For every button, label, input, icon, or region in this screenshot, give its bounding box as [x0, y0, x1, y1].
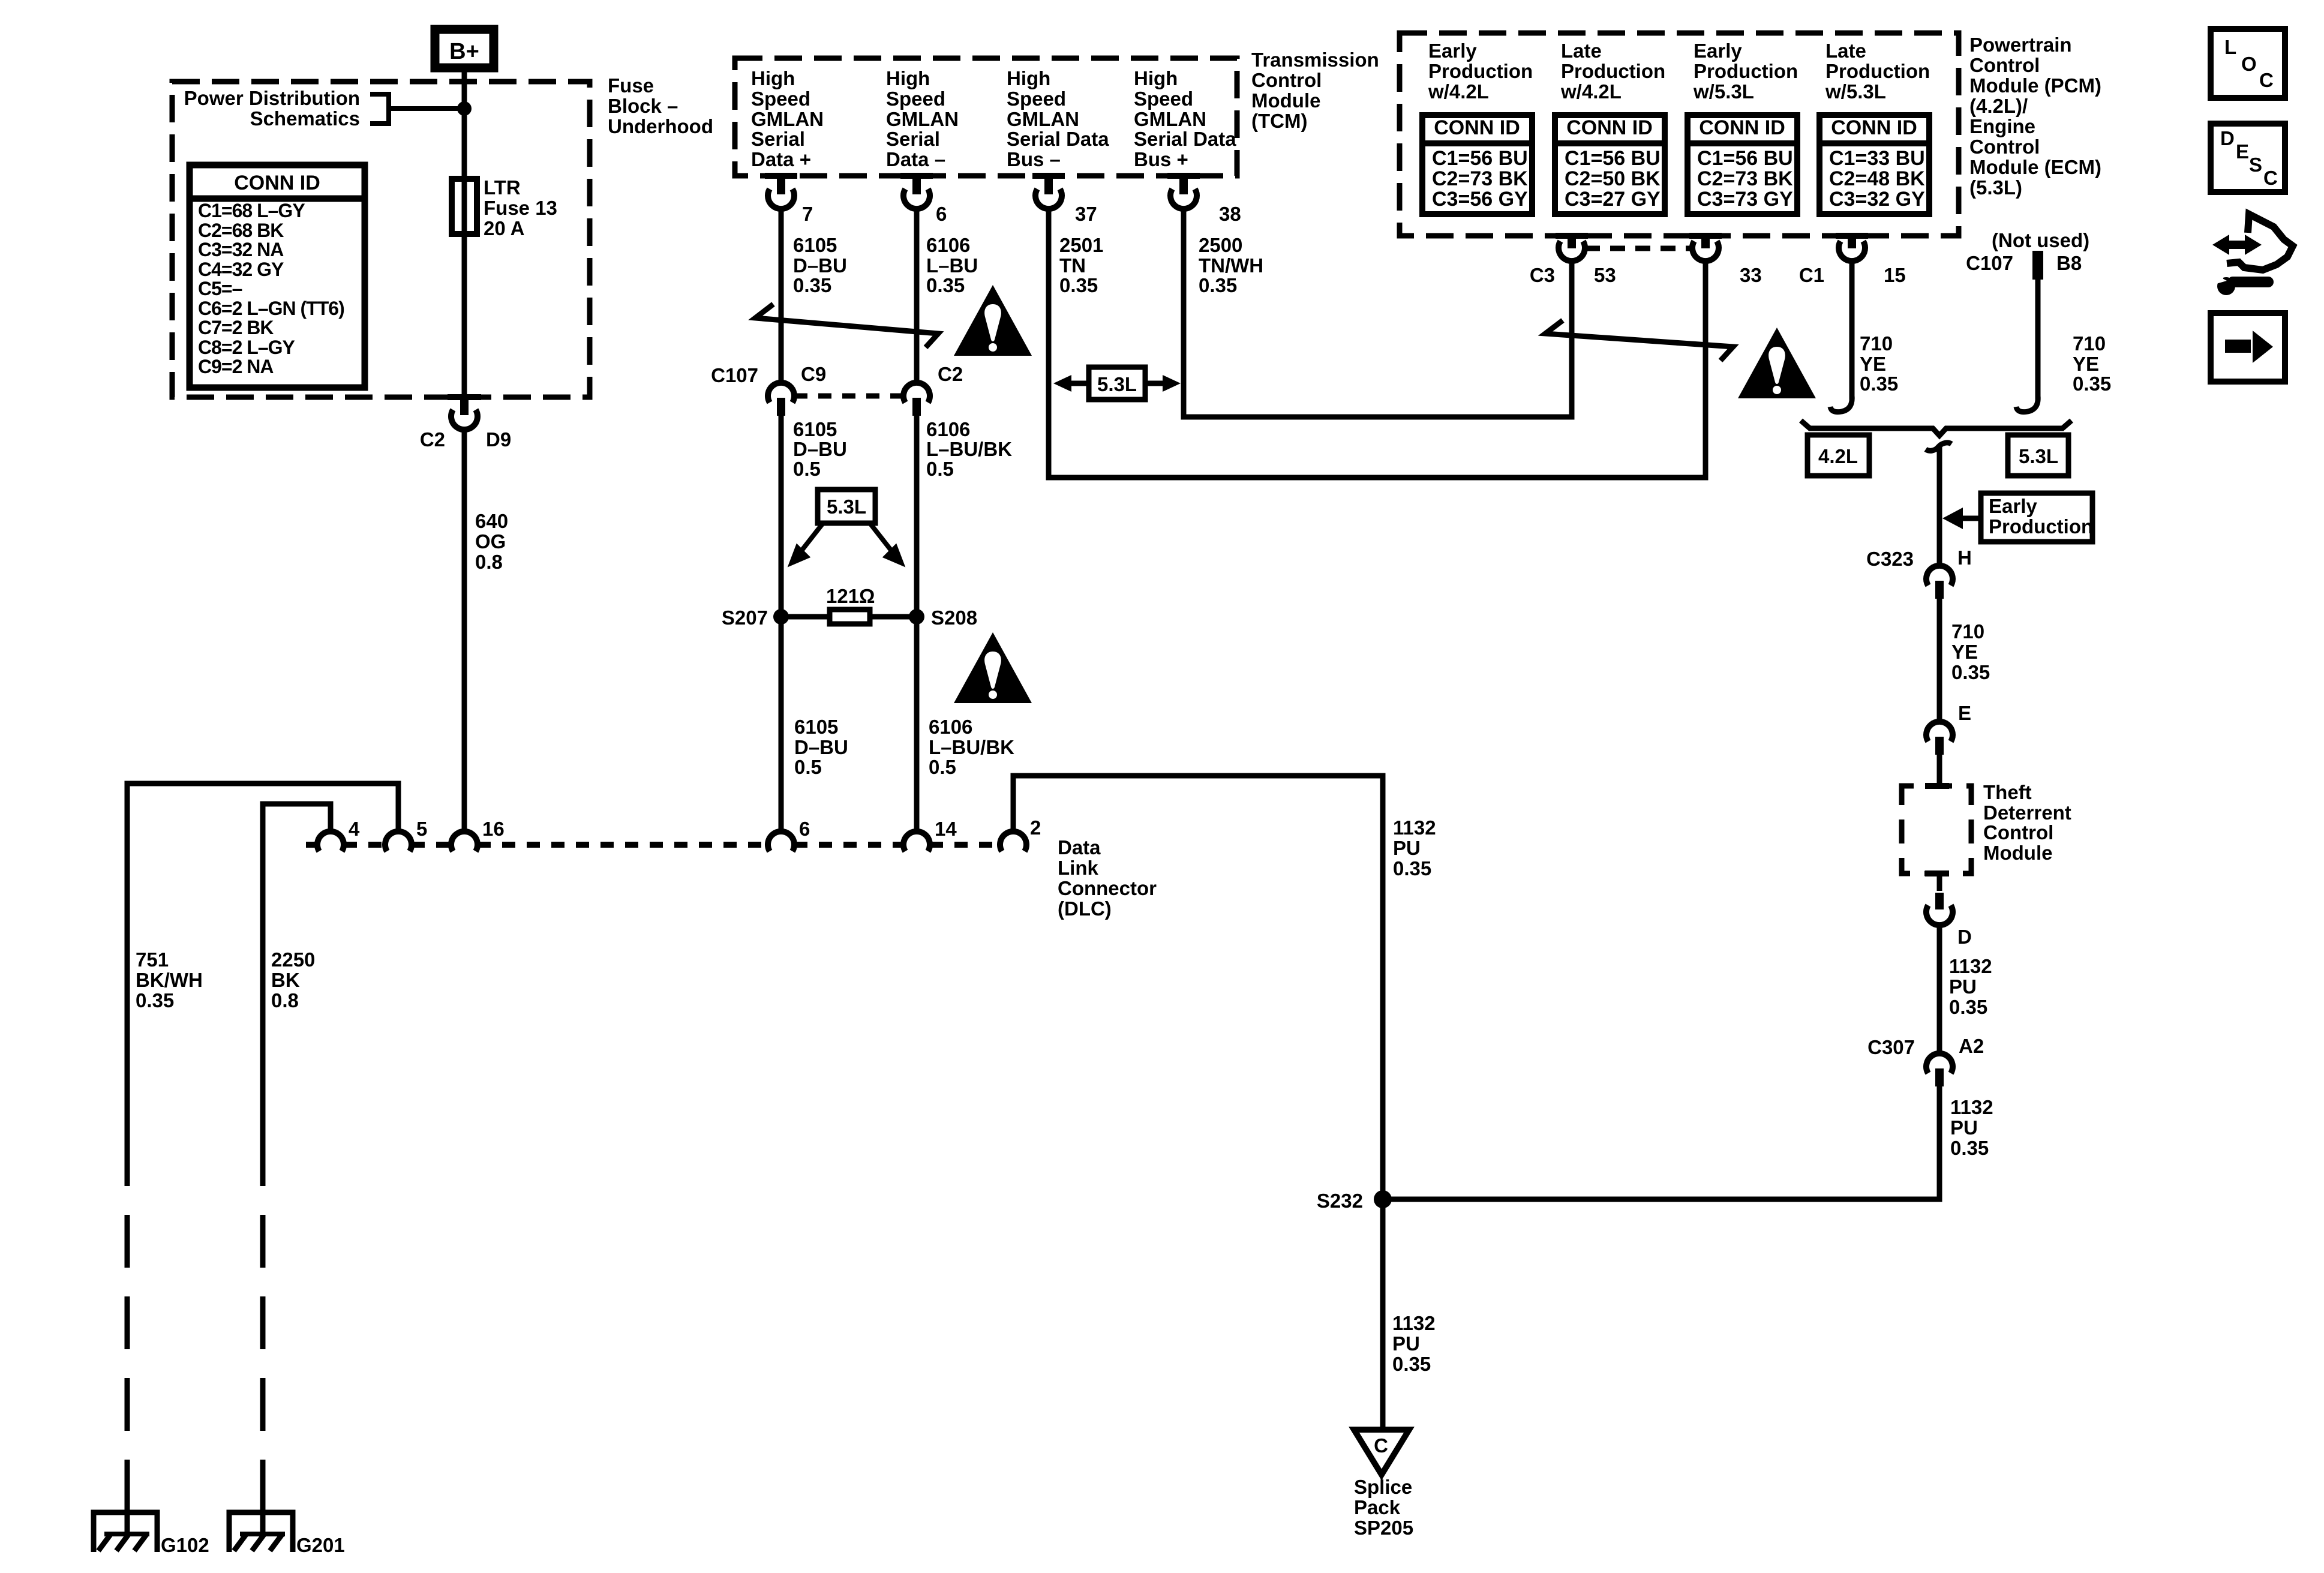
svg-text:1132: 1132: [1392, 1312, 1436, 1334]
svg-text:Late: Late: [1561, 40, 1602, 62]
svg-text:Splice: Splice: [1354, 1476, 1412, 1498]
svg-text:0.35: 0.35: [1059, 274, 1098, 296]
svg-text:C323: C323: [1866, 548, 1914, 570]
svg-text:PU: PU: [1949, 975, 1977, 998]
svg-text:Bus +: Bus +: [1134, 148, 1188, 170]
svg-text:Data –: Data –: [886, 148, 945, 170]
svg-text:C8=2 L–GY: C8=2 L–GY: [198, 337, 295, 358]
svg-text:C1=56 BU: C1=56 BU: [1432, 147, 1528, 170]
svg-text:Production: Production: [1428, 60, 1533, 82]
svg-text:L–BU/BK: L–BU/BK: [929, 736, 1014, 758]
svg-text:Module (ECM): Module (ECM): [1969, 156, 2101, 178]
svg-text:0.35: 0.35: [136, 989, 174, 1011]
svg-text:Block –: Block –: [608, 95, 678, 117]
svg-text:Engine: Engine: [1969, 115, 2035, 137]
svg-text:Deterrent: Deterrent: [1983, 801, 2071, 824]
svg-text:2501: 2501: [1059, 234, 1103, 256]
svg-text:Speed: Speed: [1007, 88, 1066, 110]
svg-text:CONN ID: CONN ID: [1566, 116, 1653, 139]
svg-text:38: 38: [1219, 203, 1241, 225]
svg-text:D–BU: D–BU: [794, 736, 848, 758]
svg-text:C1=56 BU: C1=56 BU: [1565, 147, 1661, 170]
svg-text:0.35: 0.35: [793, 274, 831, 296]
svg-text:C1=33 BU: C1=33 BU: [1829, 147, 1925, 170]
svg-text:C107: C107: [711, 364, 758, 386]
svg-text:C3=32 NA: C3=32 NA: [198, 239, 284, 260]
svg-text:Control: Control: [1983, 821, 2053, 843]
svg-text:0.5: 0.5: [794, 756, 822, 778]
svg-text:2: 2: [1030, 816, 1041, 839]
svg-text:C2=50 BK: C2=50 BK: [1565, 167, 1661, 190]
svg-text:0.5: 0.5: [793, 458, 821, 480]
svg-text:PU: PU: [1950, 1116, 1978, 1139]
svg-text:Transmission: Transmission: [1251, 49, 1379, 71]
svg-text:710: 710: [2073, 332, 2106, 355]
svg-text:D–BU: D–BU: [793, 254, 847, 277]
svg-text:5: 5: [416, 818, 427, 840]
svg-text:710: 710: [1951, 620, 1984, 643]
svg-text:6106: 6106: [929, 716, 972, 738]
svg-text:D–BU: D–BU: [793, 438, 847, 460]
svg-text:Production: Production: [1825, 60, 1930, 82]
svg-text:High: High: [751, 67, 795, 89]
svg-text:E: E: [2236, 140, 2249, 163]
svg-text:C3=27 GY: C3=27 GY: [1565, 188, 1661, 211]
svg-text:2500: 2500: [1199, 234, 1242, 256]
svg-text:0.35: 0.35: [1392, 1353, 1431, 1375]
svg-text:S: S: [2249, 154, 2262, 176]
svg-text:751: 751: [136, 948, 169, 971]
svg-text:C6=2 L–GN (TT6): C6=2 L–GN (TT6): [198, 298, 344, 319]
svg-text:C: C: [1374, 1434, 1388, 1457]
svg-text:6105: 6105: [794, 716, 838, 738]
svg-text:2250: 2250: [271, 948, 315, 971]
svg-text:High: High: [1134, 67, 1178, 89]
svg-text:Data: Data: [1058, 836, 1101, 858]
svg-text:H: H: [1957, 547, 1972, 569]
svg-text:G102: G102: [161, 1534, 209, 1556]
svg-text:0.35: 0.35: [1860, 373, 1898, 395]
svg-text:Control: Control: [1251, 69, 1322, 91]
svg-text:High: High: [1007, 67, 1050, 89]
svg-text:C5=–: C5=–: [198, 278, 242, 299]
svg-text:Production: Production: [1561, 60, 1665, 82]
svg-text:Control: Control: [1969, 54, 2040, 76]
svg-text:C2=48 BK: C2=48 BK: [1829, 167, 1925, 190]
svg-text:6106: 6106: [926, 418, 970, 440]
svg-text:LTR: LTR: [484, 176, 521, 199]
svg-text:Speed: Speed: [751, 88, 810, 110]
svg-text:O: O: [2241, 53, 2257, 75]
svg-text:16: 16: [482, 818, 505, 840]
svg-text:C1=68 L–GY: C1=68 L–GY: [198, 200, 305, 221]
svg-text:B+: B+: [449, 39, 479, 64]
svg-text:(TCM): (TCM): [1251, 110, 1307, 132]
svg-text:w/5.3L: w/5.3L: [1825, 80, 1886, 103]
svg-text:0.5: 0.5: [926, 458, 954, 480]
svg-text:C9=2 NA: C9=2 NA: [198, 356, 274, 377]
svg-text:OG: OG: [475, 530, 506, 553]
svg-text:0.35: 0.35: [1393, 857, 1431, 879]
svg-text:6: 6: [936, 203, 947, 225]
svg-text:5.3L: 5.3L: [1097, 373, 1137, 395]
svg-text:1132: 1132: [1950, 1096, 1993, 1118]
svg-text:0.8: 0.8: [271, 989, 299, 1011]
svg-text:D: D: [2220, 127, 2235, 149]
svg-text:Pack: Pack: [1354, 1496, 1401, 1518]
svg-text:C: C: [2263, 167, 2278, 189]
svg-text:L–BU/BK: L–BU/BK: [926, 438, 1012, 460]
svg-text:Serial Data: Serial Data: [1007, 128, 1109, 150]
svg-text:S207: S207: [722, 607, 768, 629]
svg-text:Module (PCM): Module (PCM): [1969, 74, 2101, 97]
svg-text:Late: Late: [1825, 40, 1866, 62]
svg-text:(Not used): (Not used): [1992, 229, 2089, 251]
svg-text:33: 33: [1740, 264, 1762, 286]
svg-text:6105: 6105: [793, 234, 837, 256]
svg-text:Bus –: Bus –: [1007, 148, 1061, 170]
svg-text:14: 14: [935, 818, 957, 840]
svg-text:Module: Module: [1251, 89, 1320, 112]
svg-text:6: 6: [799, 818, 810, 840]
svg-text:Serial Data: Serial Data: [1134, 128, 1236, 150]
svg-text:0.35: 0.35: [2073, 373, 2111, 395]
svg-text:C107: C107: [1966, 252, 2013, 274]
svg-text:YE: YE: [2073, 353, 2099, 375]
svg-text:High: High: [886, 67, 930, 89]
svg-text:C1=56 BU: C1=56 BU: [1697, 147, 1793, 170]
svg-text:4: 4: [349, 818, 360, 840]
svg-text:Production: Production: [1989, 515, 2093, 538]
svg-text:BK: BK: [271, 969, 300, 991]
svg-text:Early: Early: [1428, 40, 1477, 62]
svg-text:6105: 6105: [793, 418, 837, 440]
svg-text:BK/WH: BK/WH: [136, 969, 203, 991]
svg-text:GMLAN: GMLAN: [1007, 108, 1079, 130]
svg-text:w/5.3L: w/5.3L: [1693, 80, 1754, 103]
svg-text:20 A: 20 A: [484, 217, 524, 239]
svg-text:(DLC): (DLC): [1058, 897, 1112, 920]
svg-text:C4=32 GY: C4=32 GY: [198, 259, 284, 280]
svg-text:C7=2 BK: C7=2 BK: [198, 317, 274, 338]
svg-text:PU: PU: [1393, 837, 1421, 859]
svg-text:6106: 6106: [926, 234, 970, 256]
svg-text:Data +: Data +: [751, 148, 811, 170]
svg-text:Early: Early: [1694, 40, 1742, 62]
svg-text:S232: S232: [1317, 1190, 1363, 1212]
svg-text:L–BU: L–BU: [926, 254, 978, 277]
svg-text:5.3L: 5.3L: [827, 496, 866, 518]
svg-text:C3=56 GY: C3=56 GY: [1432, 188, 1528, 211]
svg-text:Control: Control: [1969, 136, 2040, 158]
svg-text:TN/WH: TN/WH: [1199, 254, 1263, 277]
svg-text:C3: C3: [1530, 264, 1555, 286]
svg-text:0.35: 0.35: [1949, 996, 1987, 1018]
svg-text:Serial: Serial: [751, 128, 805, 150]
svg-text:A2: A2: [1959, 1035, 1984, 1057]
svg-text:L: L: [2224, 36, 2236, 58]
svg-text:GMLAN: GMLAN: [886, 108, 959, 130]
svg-text:Connector: Connector: [1058, 877, 1157, 899]
svg-text:C2=73 BK: C2=73 BK: [1432, 167, 1528, 190]
svg-text:710: 710: [1860, 332, 1893, 355]
svg-text:(4.2L)/: (4.2L)/: [1969, 95, 2028, 117]
svg-text:CONN ID: CONN ID: [234, 172, 320, 194]
svg-text:7: 7: [802, 203, 813, 225]
svg-text:S208: S208: [931, 607, 977, 629]
svg-text:121Ω: 121Ω: [826, 585, 875, 607]
svg-text:G201: G201: [296, 1534, 345, 1556]
svg-text:TN: TN: [1059, 254, 1086, 277]
svg-text:0.35: 0.35: [1951, 661, 1990, 683]
svg-text:0.5: 0.5: [929, 756, 956, 778]
svg-text:15: 15: [1884, 264, 1906, 286]
svg-text:C9: C9: [801, 363, 826, 385]
svg-text:640: 640: [475, 510, 508, 532]
svg-text:C2=68 BK: C2=68 BK: [198, 220, 284, 241]
svg-text:1132: 1132: [1949, 955, 1992, 977]
svg-text:0.35: 0.35: [1199, 274, 1237, 296]
svg-text:Serial: Serial: [886, 128, 940, 150]
svg-text:B8: B8: [2056, 252, 2082, 274]
svg-text:C3=32 GY: C3=32 GY: [1829, 188, 1925, 211]
svg-text:0.8: 0.8: [475, 551, 503, 573]
svg-text:D9: D9: [486, 428, 511, 451]
svg-text:E: E: [1958, 702, 1971, 724]
svg-text:Production: Production: [1694, 60, 1798, 82]
svg-text:Power Distribution: Power Distribution: [184, 87, 360, 109]
svg-text:C2: C2: [938, 363, 963, 385]
svg-text:53: 53: [1594, 264, 1616, 286]
svg-text:Module: Module: [1983, 842, 2052, 864]
svg-text:1132: 1132: [1393, 816, 1436, 839]
svg-text:Theft: Theft: [1983, 781, 2032, 803]
svg-text:5.3L: 5.3L: [2019, 445, 2058, 467]
svg-text:SP205: SP205: [1354, 1517, 1413, 1539]
svg-text:C307: C307: [1867, 1036, 1915, 1058]
svg-text:C1: C1: [1799, 264, 1824, 286]
svg-text:0.35: 0.35: [926, 274, 965, 296]
svg-text:Fuse: Fuse: [608, 74, 654, 97]
svg-text:Speed: Speed: [1134, 88, 1193, 110]
svg-text:GMLAN: GMLAN: [1134, 108, 1206, 130]
svg-text:CONN ID: CONN ID: [1831, 116, 1917, 139]
svg-text:Speed: Speed: [886, 88, 945, 110]
svg-text:D: D: [1957, 926, 1972, 948]
svg-text:0.35: 0.35: [1950, 1137, 1989, 1159]
svg-text:C2: C2: [420, 428, 445, 451]
svg-text:w/4.2L: w/4.2L: [1428, 80, 1489, 103]
svg-text:(5.3L): (5.3L): [1969, 176, 2022, 199]
svg-text:C3=73 GY: C3=73 GY: [1697, 188, 1793, 211]
svg-text:37: 37: [1075, 203, 1097, 225]
svg-text:Early: Early: [1989, 495, 2037, 517]
svg-text:CONN ID: CONN ID: [1699, 116, 1785, 139]
svg-text:YE: YE: [1951, 641, 1978, 663]
svg-text:YE: YE: [1860, 353, 1886, 375]
svg-text:Fuse 13: Fuse 13: [484, 197, 557, 219]
svg-text:4.2L: 4.2L: [1818, 445, 1858, 467]
svg-text:CONN ID: CONN ID: [1434, 116, 1520, 139]
svg-text:Link: Link: [1058, 857, 1098, 879]
svg-text:w/4.2L: w/4.2L: [1560, 80, 1622, 103]
svg-text:C: C: [2259, 69, 2274, 91]
svg-text:Underhood: Underhood: [608, 115, 713, 137]
svg-text:Powertrain: Powertrain: [1969, 34, 2072, 56]
svg-text:GMLAN: GMLAN: [751, 108, 824, 130]
svg-text:Schematics: Schematics: [250, 107, 360, 130]
svg-text:C2=73 BK: C2=73 BK: [1697, 167, 1793, 190]
svg-text:PU: PU: [1392, 1332, 1420, 1355]
